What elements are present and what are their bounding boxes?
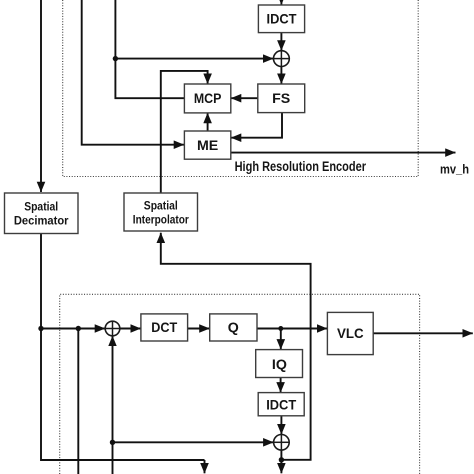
svg-text:Interpolator: Interpolator [133,212,189,226]
svg-text:Q: Q [228,320,239,336]
svg-text:VLC: VLC [337,326,364,342]
svg-text:DCT: DCT [151,320,177,336]
svg-text:IQ: IQ [272,357,287,373]
svg-text:IDCT: IDCT [266,397,296,413]
svg-text:High Resolution Encoder: High Resolution Encoder [235,159,367,174]
svg-text:Decimator: Decimator [14,214,69,228]
svg-text:MCP: MCP [194,91,222,107]
svg-text:mv_h: mv_h [440,161,469,176]
svg-text:IDCT: IDCT [267,12,297,28]
svg-text:ME: ME [197,138,218,154]
svg-text:Spatial: Spatial [24,199,58,213]
svg-text:Spatial: Spatial [144,198,178,212]
svg-text:FS: FS [272,91,290,107]
